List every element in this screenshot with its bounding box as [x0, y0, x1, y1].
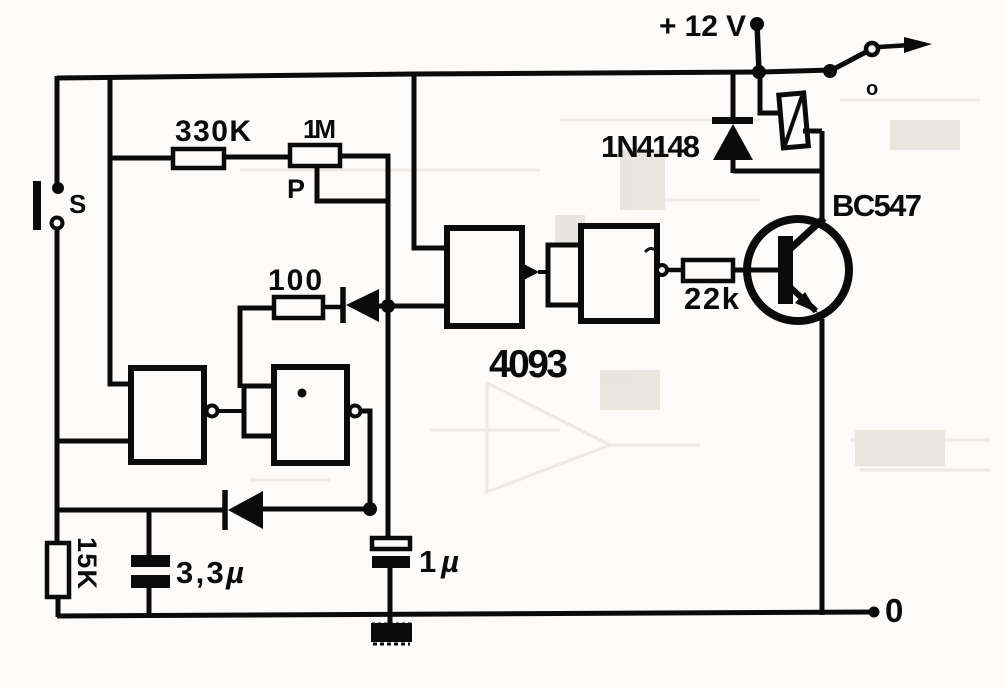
gate 2 output inversion bubble: [657, 265, 667, 275]
gate 4 pin dot: [298, 389, 307, 398]
wire collector up: [820, 131, 825, 221]
wire gate3 lower input: [57, 439, 133, 444]
transistor Q1 BC547: [747, 218, 849, 321]
wire 330K to 1M: [224, 155, 290, 160]
wire top supply bus: [57, 70, 832, 78]
wire 1N4148 bottom to collector line: [733, 169, 824, 174]
svg-text:o: o: [866, 78, 878, 100]
wire 22k to base: [733, 268, 780, 273]
capacitor C1 3.3u: [131, 510, 170, 617]
wire diode D2 to gate 1 input: [379, 304, 448, 309]
svg-text:1M: 1M: [303, 114, 336, 144]
wire diode D3 to vertical node: [263, 507, 371, 512]
diode D1 1N4148 (points up): [712, 117, 753, 173]
wire P wiper: [317, 166, 388, 201]
wire left vertical below S down to 15K: [55, 228, 60, 545]
gate 3 output inversion bubble: [207, 406, 218, 417]
wire gate 1 output arrow: [522, 263, 549, 281]
svg-text:3,3µ: 3,3µ: [176, 555, 244, 590]
node bus junction: [752, 65, 766, 79]
svg-text:+ 12 V: + 12 V: [659, 10, 746, 43]
svg-text:BC547: BC547: [832, 188, 922, 223]
wire 330K left lead: [110, 156, 173, 161]
wire +12V to bus: [757, 24, 759, 72]
svg-text:15K: 15K: [72, 537, 102, 590]
wire gate3 to connector box: [218, 409, 245, 413]
wire 15K to bottom rail: [56, 597, 61, 617]
wire relay to collector line: [803, 129, 822, 134]
wire vertical to gate 1 top input: [414, 74, 448, 248]
svg-text:330K: 330K: [175, 115, 251, 148]
connector box between gate3 and gate4: [244, 386, 274, 436]
capacitor C2 1u: [372, 538, 410, 625]
resistor 100: [274, 297, 323, 318]
resistor 330K: [173, 149, 224, 168]
wire 1M right lead to vertical node: [340, 154, 390, 159]
diode D2 (points left): [343, 287, 379, 323]
wire bottom rail 0V: [57, 612, 874, 616]
gate U1B (4093): [581, 226, 657, 321]
wire gate2 to 22k: [667, 268, 684, 273]
svg-text:100: 100: [268, 264, 322, 297]
wire gate4 output down to diode row: [360, 411, 370, 509]
svg-text:P: P: [287, 174, 305, 204]
gate U1C (4093): [131, 368, 204, 462]
wire bus to 1N4148: [731, 72, 736, 120]
svg-text:22k: 22k: [684, 281, 740, 316]
svg-text:0: 0: [885, 592, 903, 629]
wire bottom diode row left: [57, 508, 224, 513]
node +12V terminal dot: [750, 17, 764, 31]
potentiometer 1M: [290, 145, 340, 166]
connector box between gate1 and gate2: [548, 245, 581, 305]
node 0V terminal: [869, 607, 880, 618]
svg-text:S: S: [69, 189, 86, 219]
gate U1D (4093): [274, 367, 347, 463]
gate 4 output inversion bubble: [350, 406, 361, 417]
wire left vertical from bus to switch S: [55, 76, 60, 186]
svg-text:1N4148: 1N4148: [601, 129, 700, 164]
wire second vertical from bus down to gate 3 input: [110, 76, 133, 384]
diode D3 (points left): [225, 490, 263, 530]
wire 100 to diode D2: [323, 305, 342, 310]
resistor 22k: [683, 260, 733, 281]
wire bus to relay: [760, 72, 782, 113]
wire emitter down to rail: [820, 319, 825, 615]
wire 100 left lead bending down to gate 4 input: [240, 308, 274, 388]
ground: [371, 623, 412, 644]
node junction diode row: [363, 502, 377, 516]
resistor 15K: [47, 543, 69, 597]
node junction at vertical: [381, 299, 395, 313]
relay K1: [779, 93, 809, 148]
switch contact (relay output): [823, 37, 932, 78]
gate U1A (4093): [447, 228, 522, 326]
pushbutton S: [33, 181, 64, 230]
svg-text:4093: 4093: [489, 343, 568, 386]
wire long vertical node 1M/diode/1u: [386, 154, 391, 540]
